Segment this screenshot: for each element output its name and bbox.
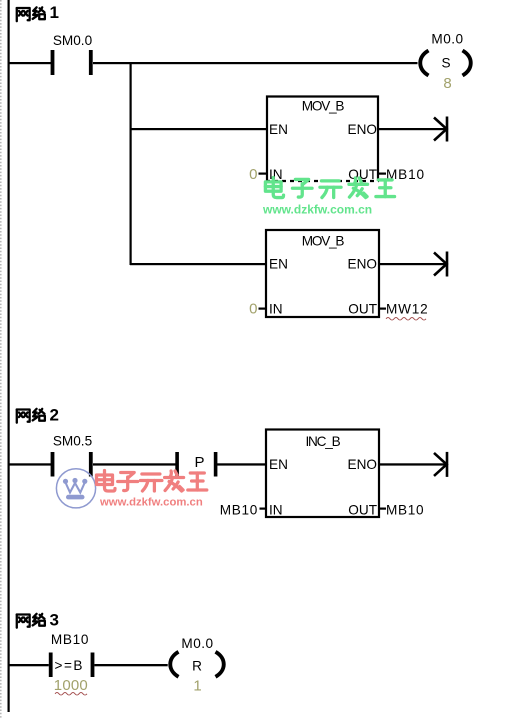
svg-text:IN: IN — [269, 302, 283, 317]
svg-text:OUT: OUT — [348, 302, 377, 317]
svg-text:1: 1 — [193, 678, 201, 695]
svg-text:M0.0: M0.0 — [431, 32, 463, 47]
svg-text:OUT: OUT — [348, 503, 377, 518]
svg-text:ENO: ENO — [348, 122, 377, 137]
svg-text:>=B: >=B — [55, 658, 84, 673]
svg-text:1000: 1000 — [54, 677, 88, 694]
svg-text:2: 2 — [50, 406, 59, 425]
svg-text:IN: IN — [269, 167, 283, 182]
svg-text:1: 1 — [50, 3, 59, 22]
svg-text:OUT: OUT — [348, 167, 377, 182]
svg-text:MOV_B: MOV_B — [302, 99, 345, 114]
svg-text:MB10: MB10 — [51, 632, 89, 647]
svg-text:M0.0: M0.0 — [181, 636, 213, 651]
svg-text:MB10: MB10 — [220, 503, 258, 518]
svg-text:IN: IN — [269, 503, 283, 518]
svg-text:MW12: MW12 — [386, 302, 428, 317]
svg-text:8: 8 — [443, 75, 451, 92]
svg-text:INC_B: INC_B — [305, 434, 340, 449]
svg-text:3: 3 — [50, 611, 59, 630]
svg-text:R: R — [192, 659, 202, 674]
svg-text:ENO: ENO — [348, 457, 377, 472]
svg-text:SM0.0: SM0.0 — [53, 33, 93, 48]
svg-text:P: P — [194, 454, 204, 471]
svg-text:0: 0 — [249, 301, 257, 318]
svg-text:MB10: MB10 — [386, 503, 424, 518]
svg-text:ENO: ENO — [348, 257, 377, 272]
svg-text:EN: EN — [269, 457, 288, 472]
svg-text:www.dzkfw.com.cn: www.dzkfw.com.cn — [262, 203, 372, 217]
svg-text:S: S — [441, 55, 450, 70]
svg-text:EN: EN — [269, 122, 288, 137]
svg-text:MOV_B: MOV_B — [302, 234, 345, 249]
svg-text:0: 0 — [249, 166, 257, 183]
svg-text:EN: EN — [269, 257, 288, 272]
svg-text:SM0.5: SM0.5 — [53, 434, 92, 449]
svg-text:www.dzkfw.com.cn: www.dzkfw.com.cn — [99, 497, 203, 509]
